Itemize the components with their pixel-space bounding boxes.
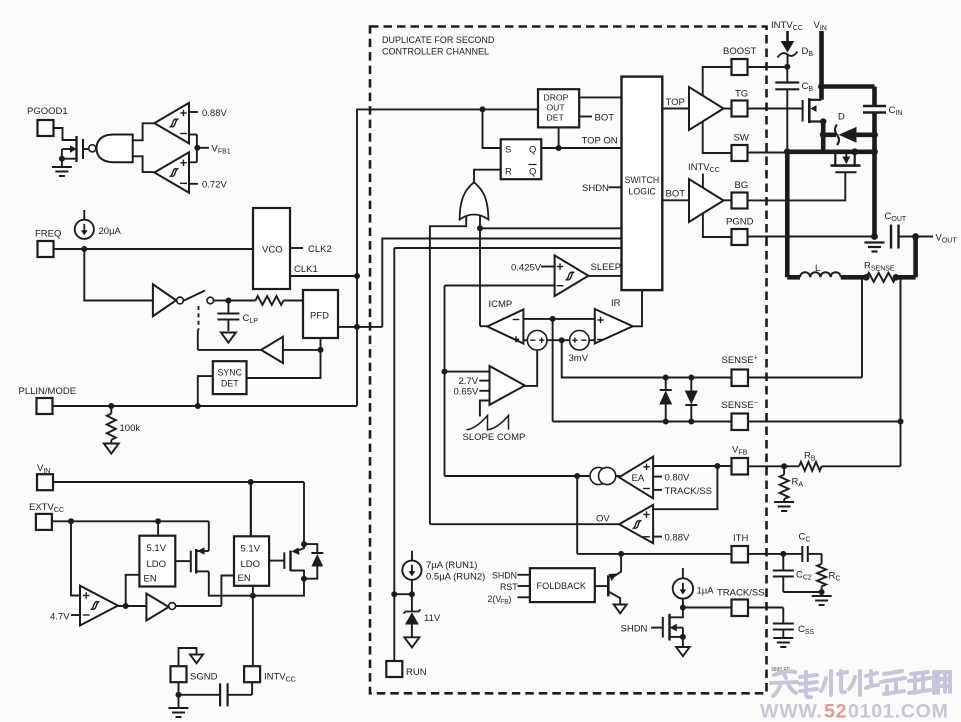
svg-text:2(V: 2(V bbox=[488, 594, 502, 604]
svg-text:SYNC: SYNC bbox=[218, 368, 243, 378]
resistor RC bbox=[817, 554, 840, 592]
pin SENSE+ bbox=[722, 355, 758, 387]
wire SW pin left to DRV1 bottom rail bbox=[703, 122, 732, 154]
resistor RB bbox=[799, 451, 900, 471]
wire U1 lower input from CMP2 output bbox=[133, 156, 155, 172]
svg-text:PGOOD1: PGOOD1 bbox=[27, 106, 68, 117]
label SHDN input bbox=[492, 571, 530, 581]
current source CS3 1uA bbox=[673, 568, 715, 599]
wire SENSE+ feed from offset node bbox=[562, 340, 732, 377]
svg-text:Q: Q bbox=[529, 145, 536, 156]
wire feedback up to switch lever bbox=[197, 330, 199, 350]
block FOLDBACK bbox=[530, 568, 595, 602]
wire EA+ to VFB node bbox=[653, 463, 731, 469]
wire VIN to CIN top (thick) bbox=[822, 87, 875, 106]
transistor M3 (bottom N-channel MOSFET, rotated) bbox=[831, 152, 861, 173]
wire VIN row down to LDO2 top bbox=[250, 482, 252, 536]
svg-text:CONTROLLER CHANNEL: CONTROLLER CHANNEL bbox=[382, 47, 489, 57]
label VOUT bbox=[916, 233, 958, 245]
label RST input bbox=[500, 582, 530, 592]
inverter INV1 (frequency set switch driver) bbox=[153, 284, 184, 316]
capacitor COUT bbox=[885, 211, 907, 249]
block PFD bbox=[303, 290, 338, 338]
current source CS2 7uA bbox=[402, 551, 421, 594]
wire S input from top row bbox=[483, 109, 501, 148]
wire BG pin right to M3 gate bbox=[748, 172, 846, 200]
pin SW bbox=[732, 133, 749, 162]
diode DB (boost supply) bbox=[778, 31, 814, 67]
wire INTVCC node up to LDO2 bottom bbox=[252, 586, 254, 596]
driver DRV2 (bottom gate) bbox=[689, 179, 724, 222]
capacitor CC2 bbox=[773, 554, 812, 592]
svg-text:ICMP: ICMP bbox=[489, 299, 513, 310]
watermark url WWW.520101.COM bbox=[760, 701, 949, 722]
wire PGOOD1 pin to M1 drain bbox=[54, 128, 77, 140]
wire ITH row right bbox=[748, 551, 802, 557]
svg-text:LOGIC: LOGIC bbox=[629, 187, 657, 197]
label INTVCC top supply bbox=[771, 20, 803, 32]
wire COUT to VOUT node bbox=[899, 233, 919, 240]
ground arrow hook above SGND bbox=[179, 648, 204, 666]
wire LDO1 top from EXTVCC row bbox=[157, 521, 159, 535]
pin RUN bbox=[386, 661, 426, 678]
svg-text:SLOPE COMP: SLOPE COMP bbox=[463, 432, 526, 443]
svg-text:DUPLICATE FOR SECOND: DUPLICATE FOR SECOND bbox=[382, 35, 495, 45]
pin SGND bbox=[171, 666, 218, 682]
value 0.88V stub at OV bbox=[653, 533, 690, 544]
label VIN top supply bbox=[814, 20, 827, 32]
switch S1 (open lever with contact) bbox=[184, 291, 214, 331]
wire PGND pin right to power ground node bbox=[748, 236, 875, 238]
wire switch to CLP node bbox=[214, 298, 232, 304]
wire U1 upper input from CMP1 output bbox=[133, 123, 155, 140]
svg-text:SHDN: SHDN bbox=[492, 571, 517, 581]
svg-text:TRACK/SS: TRACK/SS bbox=[665, 486, 713, 497]
wire OR left input from OV comparator bbox=[430, 216, 466, 524]
ground below RA bbox=[774, 499, 794, 511]
wire RUN rail vertical bbox=[391, 248, 397, 661]
svg-text:OV: OV bbox=[596, 514, 610, 525]
wire DOD bottom to TOP ON node bbox=[556, 127, 562, 151]
svg-text:EA: EA bbox=[632, 473, 645, 484]
wire EXTVCC row bbox=[52, 518, 209, 524]
svg-text:7µA (RUN1): 7µA (RUN1) bbox=[426, 560, 477, 571]
sawtooth waveform glyph bbox=[467, 416, 509, 430]
svg-text:RST: RST bbox=[500, 582, 518, 592]
transistor M4 (TRACK/SS discharge) bbox=[651, 599, 686, 647]
pin VIN (left) bbox=[37, 463, 53, 490]
wire CC2 to RC bottom junction bbox=[783, 589, 824, 595]
pin BOOST bbox=[723, 46, 756, 75]
pin VFB bbox=[732, 445, 749, 475]
svg-text:SHDN: SHDN bbox=[582, 183, 609, 194]
wire SW pin right to switch node bbox=[748, 152, 787, 154]
svg-text:BOT: BOT bbox=[666, 189, 686, 200]
pin SENSE- bbox=[722, 400, 758, 431]
svg-text:0.5µA (RUN2): 0.5µA (RUN2) bbox=[426, 572, 485, 583]
block SWITCH LOGIC bbox=[622, 77, 663, 291]
driver DRV1 (top gate) bbox=[689, 87, 724, 130]
svg-text:DET: DET bbox=[221, 379, 239, 389]
svg-text:0.80V: 0.80V bbox=[665, 473, 690, 484]
svg-text:CLK1: CLK1 bbox=[294, 264, 318, 275]
wire CMP3 output row bbox=[118, 603, 146, 609]
wire M6 source to INTVCC node bbox=[250, 579, 304, 599]
label SLEEP and output wire bbox=[588, 262, 621, 276]
wire CMP3 node up to LDO1 EN bbox=[126, 575, 140, 606]
svg-text:WWW.: WWW. bbox=[760, 701, 823, 722]
ground below RC bbox=[812, 592, 832, 605]
svg-text:20µA: 20µA bbox=[99, 226, 122, 237]
wire sync rail vertical x357 up to top row and right to DROP OUT DET bbox=[357, 106, 538, 406]
ground below SGND bbox=[169, 695, 189, 717]
wire switch node row (thick) bbox=[784, 148, 875, 155]
svg-text:TOP ON: TOP ON bbox=[582, 136, 618, 147]
svg-text:SW: SW bbox=[734, 133, 749, 144]
current source CS1 20uA bbox=[75, 210, 122, 239]
svg-text:PGND: PGND bbox=[726, 217, 754, 228]
comparator OV (overvoltage 0.88V) bbox=[596, 505, 653, 543]
inductor L bbox=[800, 263, 841, 277]
block VCO bbox=[253, 208, 290, 289]
svg-text:0.65V: 0.65V bbox=[454, 387, 479, 398]
capacitor CC bbox=[799, 532, 822, 562]
svg-text:TG: TG bbox=[735, 89, 748, 100]
svg-text:BOT: BOT bbox=[595, 113, 615, 124]
ground arrow at Q1 emitter bbox=[614, 605, 627, 614]
ground arrow below Z1 bbox=[404, 637, 419, 647]
comparator CMP2 (undervoltage monitor 0.72V) bbox=[154, 152, 189, 193]
wire PLLIN node up to SYNC DET input bbox=[198, 376, 213, 406]
svg-text:FOLDBACK: FOLDBACK bbox=[537, 581, 587, 591]
pin FREQ bbox=[35, 229, 61, 258]
wire SLEEP minus input from ITH rail bbox=[445, 285, 555, 287]
wire INTVCC node down to INTVCC pin bbox=[252, 596, 254, 667]
wire Q output TOP ON to SWITCH LOGIC bbox=[541, 136, 621, 149]
capacitor CSS bbox=[773, 608, 815, 639]
svg-text:PFD: PFD bbox=[310, 311, 329, 322]
value label 3mV bbox=[569, 353, 589, 364]
wire ITH row bbox=[577, 551, 731, 557]
node VFB1 junction and label bbox=[189, 135, 231, 163]
wire OV+ up to VFB node bbox=[653, 466, 717, 509]
wire EA row from ITH rail bbox=[445, 473, 590, 479]
wire M2 source to switch node (thick) bbox=[820, 118, 827, 152]
wire PFD bottom to feedback buffer INV2 bbox=[318, 338, 324, 353]
transistor Q1 (foldback clamp) bbox=[595, 554, 621, 605]
value label 0.72V with stub bbox=[189, 180, 227, 191]
svg-text:0.72V: 0.72V bbox=[202, 180, 227, 191]
svg-text:1µA: 1µA bbox=[697, 586, 715, 597]
gate OR1 (reset OR, pointing up) bbox=[460, 182, 489, 219]
transistor M6 (VIN pass PMOS) bbox=[269, 482, 307, 582]
wire VFB row right with RA RB nodes bbox=[748, 463, 799, 469]
svg-text:FREQ: FREQ bbox=[35, 229, 61, 240]
watermark chinese calligraphy 520101.com bbox=[771, 671, 950, 697]
svg-text:4.7V: 4.7V bbox=[50, 612, 70, 623]
svg-text:5.1V: 5.1V bbox=[147, 543, 167, 554]
svg-text:11V: 11V bbox=[424, 613, 441, 624]
label: DUPLICATE FOR SECOND CONTROLLER CHANNEL bbox=[382, 35, 495, 57]
svg-text:0101.COM: 0101.COM bbox=[848, 701, 949, 722]
wire ICMP output up to rail1 bbox=[480, 228, 487, 326]
svg-text:R: R bbox=[505, 167, 512, 178]
resistor RSENSE bbox=[863, 261, 899, 282]
amplifier IR (current reversal comparator) bbox=[595, 298, 633, 344]
block LDO1 5.1V bbox=[139, 536, 175, 587]
label SHDN input stub bbox=[582, 183, 622, 194]
value labels 7uA (RUN1) 0.5uA (RUN2) bbox=[426, 560, 485, 583]
wire rail2 PFD to SWITCH LOGIC bbox=[382, 239, 621, 327]
wire VIN thick feed bbox=[818, 31, 825, 100]
wire FREQ to VCO input bbox=[54, 246, 254, 252]
value 4.7V stub bbox=[50, 612, 80, 623]
svg-text:BG: BG bbox=[735, 180, 749, 191]
value label 0.88V with stub bbox=[189, 108, 227, 119]
zener diode Z1 11V bbox=[404, 594, 441, 637]
svg-text:DET: DET bbox=[547, 113, 565, 123]
svg-text:SENSE+: SENSE+ bbox=[722, 355, 758, 367]
ground at M1 source bbox=[52, 159, 72, 176]
svg-text:D: D bbox=[838, 112, 845, 123]
svg-text:5.1V: 5.1V bbox=[241, 544, 261, 555]
label SHDN at M4 gate bbox=[621, 624, 648, 635]
wire ICMP- / IR+ row bbox=[523, 316, 594, 322]
resistor 100k pulldown bbox=[107, 406, 141, 440]
value 0.80V stub bbox=[653, 473, 690, 484]
svg-text:OUT: OUT bbox=[547, 103, 566, 113]
wire rail1 OR node to SWITCH LOGIC bbox=[480, 227, 622, 229]
transistor M1 (PGOOD pull-down NMOS) bbox=[59, 136, 89, 162]
svg-text:S: S bbox=[505, 145, 511, 156]
svg-text:IR: IR bbox=[611, 298, 621, 309]
svg-text:TOP: TOP bbox=[666, 97, 685, 108]
wire SENSE- feed down from ICMP-/IR+ node bbox=[552, 319, 554, 422]
latch U2 (SR flip-flop) bbox=[501, 139, 542, 179]
ground arrow below 100k bbox=[104, 440, 119, 454]
svg-text:EN: EN bbox=[144, 574, 157, 585]
wire PGND pin left to DRV2 bottom rail bbox=[703, 214, 732, 237]
pin PLLIN/MODE bbox=[19, 386, 77, 414]
pin TG bbox=[724, 89, 749, 117]
wire RSENSE right tap down to SENSE- bbox=[900, 277, 902, 421]
ground power GND at COUT bbox=[865, 233, 885, 251]
wire RB to SENSE- node riser bbox=[900, 277, 902, 466]
diode D (freewheel schottky) on row bbox=[823, 112, 874, 146]
svg-text:DROP: DROP bbox=[544, 93, 569, 103]
wire SENSE- row bbox=[553, 419, 904, 425]
block SYNC DET bbox=[213, 361, 247, 394]
capacitor CB (bootstrap) bbox=[775, 67, 813, 152]
svg-text:0.425V: 0.425V bbox=[511, 262, 542, 273]
resistor RA bbox=[780, 466, 804, 499]
pin BG bbox=[724, 180, 749, 209]
diode D2 (M6 body diode) bbox=[304, 544, 323, 579]
comparator CMP1 (overvoltage monitor 0.88V) bbox=[154, 103, 189, 143]
label BOT stub at DOD bbox=[579, 113, 614, 124]
svg-text:RUN: RUN bbox=[406, 667, 427, 678]
wire SENSE+ row left of pin bbox=[562, 375, 732, 425]
svg-text:EN: EN bbox=[238, 573, 251, 584]
wire IR output to SWITCH LOGIC bottom bbox=[633, 290, 642, 326]
wire BOT output row bbox=[662, 189, 689, 201]
svg-text:100k: 100k bbox=[120, 423, 141, 434]
gate U1 (NAND, mirrored left-pointing) with output bubble bbox=[89, 135, 133, 163]
svg-text:CLK2: CLK2 bbox=[308, 244, 332, 255]
wire DOD top output to SWITCH LOGIC bbox=[579, 96, 621, 98]
wire VIN row to right MOSFET drain bbox=[53, 479, 304, 485]
diode DS1 (clamp, pointing up) bbox=[659, 378, 672, 422]
value 0.65V bbox=[454, 387, 479, 398]
svg-text:ITH: ITH bbox=[733, 533, 748, 544]
svg-text:0.88V: 0.88V bbox=[202, 108, 227, 119]
value 0.425V with stub bbox=[511, 262, 555, 273]
wire SYNC DET output to PFD node bbox=[247, 350, 321, 378]
wire ITH rail vertical (SLEEP- down to EA row) bbox=[442, 286, 448, 477]
svg-text:SWITCH: SWITCH bbox=[625, 175, 660, 185]
capacitor C-INTVCC (decoupling) bbox=[179, 683, 253, 706]
svg-text:Q: Q bbox=[529, 167, 536, 178]
pin EXTVCC bbox=[29, 502, 64, 530]
wire EXTVCC to comparator CMP3 plus input bbox=[71, 521, 80, 595]
wire SENSE+ row right of pin to RSENSE tap bbox=[748, 377, 862, 379]
wire CS2 to RUN rail bbox=[394, 591, 415, 597]
current mirror symbol at EA output bbox=[590, 467, 620, 484]
wire slope comp output to offset circle bbox=[525, 350, 537, 386]
svg-text:PLLIN/MODE: PLLIN/MODE bbox=[19, 386, 77, 397]
svg-text:LDO: LDO bbox=[147, 559, 167, 570]
svg-text:LDO: LDO bbox=[241, 559, 261, 570]
svg-text:TRACK/SS: TRACK/SS bbox=[717, 588, 765, 599]
wire TRACK/SS row bbox=[680, 605, 783, 611]
wire rail3 RUN to SWITCH LOGIC bbox=[394, 247, 621, 249]
capacitor CLP bbox=[217, 301, 258, 332]
svg-text:2.7V: 2.7V bbox=[459, 376, 479, 387]
wire LDO2 top lead bbox=[250, 482, 252, 536]
wire inductor row (thick) bbox=[787, 275, 866, 280]
label TRACK/SS stub bbox=[653, 486, 712, 497]
svg-text:FB: FB bbox=[500, 599, 508, 606]
wire OV output to OR gate rail bbox=[430, 523, 619, 525]
pin PGND bbox=[726, 217, 754, 246]
transistor M2 (top N-channel MOSFET) bbox=[748, 98, 824, 123]
wire SGND below pin bbox=[176, 682, 182, 698]
wire OR right input junction bbox=[477, 215, 483, 231]
svg-text:0.88V: 0.88V bbox=[665, 533, 690, 544]
wire CIN bottom to power ground column (thick) bbox=[871, 113, 878, 237]
wire PLLIN/MODE row bbox=[53, 403, 358, 409]
error amplifier EA bbox=[619, 457, 653, 499]
duplicate-channel dashed boundary box bbox=[370, 27, 767, 694]
footnote 3890 FD bbox=[771, 667, 791, 673]
svg-text:52: 52 bbox=[824, 701, 847, 722]
wire TOP output row bbox=[662, 97, 689, 109]
comparator ICMP (current comparator, left-pointing) bbox=[487, 299, 523, 344]
amplifier SLOPE-COMP adder bbox=[445, 366, 525, 405]
wire BOOST pin left to DRV1 top rail bbox=[703, 67, 732, 96]
svg-text:L: L bbox=[815, 263, 820, 274]
pin TRACK/SS bbox=[717, 588, 765, 617]
svg-text:VCO: VCO bbox=[262, 245, 283, 256]
label SLOPE COMP bbox=[463, 432, 526, 443]
resistor R-LP to PFD bbox=[228, 296, 303, 305]
slope comp ramp input stub bbox=[480, 401, 490, 417]
wire BOOST pin right to DB/CB node bbox=[748, 66, 788, 68]
buffer INV2 (left-pointing) bbox=[198, 337, 321, 363]
svg-text:SENSE−: SENSE− bbox=[722, 400, 758, 412]
inverter INV3 bbox=[146, 594, 175, 621]
output CLK2 stub and label bbox=[290, 244, 332, 255]
pin INTVCC (bottom) bbox=[244, 666, 296, 695]
ground arrow below CLP bbox=[221, 333, 236, 343]
wire FREQ node down to inverter INV1 input bbox=[84, 249, 153, 301]
label INTVCC above DRV2 with stub bbox=[688, 162, 720, 188]
transistor M5 (EXTVCC pass PMOS) bbox=[175, 547, 253, 595]
svg-text:3mV: 3mV bbox=[569, 353, 589, 364]
node BOOST junction bbox=[784, 64, 790, 70]
label 2(VFB) input bbox=[488, 594, 530, 606]
offset source circle pair at ICMP+ bbox=[523, 330, 594, 350]
svg-text:SHDN: SHDN bbox=[621, 624, 648, 635]
pin PGOOD1 bbox=[27, 106, 68, 136]
wire PFD output to rail bbox=[338, 324, 382, 330]
wire EXTVCC down to M5 drain bbox=[208, 521, 210, 551]
wire RSENSE left tap down to SENSE+ bbox=[861, 277, 863, 377]
value 2.7V bbox=[459, 376, 479, 387]
svg-text:): ) bbox=[509, 594, 512, 604]
block LDO2 5.1V bbox=[234, 536, 269, 586]
capacitor CIN bbox=[863, 105, 902, 117]
pin ITH bbox=[732, 533, 749, 563]
svg-text:BOOST: BOOST bbox=[723, 46, 756, 57]
block DROP OUT DET bbox=[538, 89, 579, 127]
wire switch node down to inductor (thick) bbox=[785, 152, 790, 277]
wire CLK1 output to sync rail bbox=[290, 264, 360, 279]
comparator CMP3 (EXTVCC 4.7V) bbox=[80, 586, 118, 626]
wire INV3 output to LDO2 EN bbox=[176, 576, 234, 607]
comparator SLEEP (0.425V) bbox=[555, 255, 589, 296]
ground below CSS bbox=[773, 638, 793, 647]
wire ITH node riser to EA row bbox=[576, 476, 578, 554]
ground arrow below M4 bbox=[676, 647, 690, 656]
wire VOUT down to RSENSE (thick) bbox=[896, 237, 916, 278]
svg-text:SLEEP: SLEEP bbox=[591, 262, 622, 273]
diode DS2 (clamp, pointing down) bbox=[685, 378, 698, 422]
svg-text:SGND: SGND bbox=[190, 672, 218, 683]
wire R input from OR gate bbox=[474, 170, 501, 183]
